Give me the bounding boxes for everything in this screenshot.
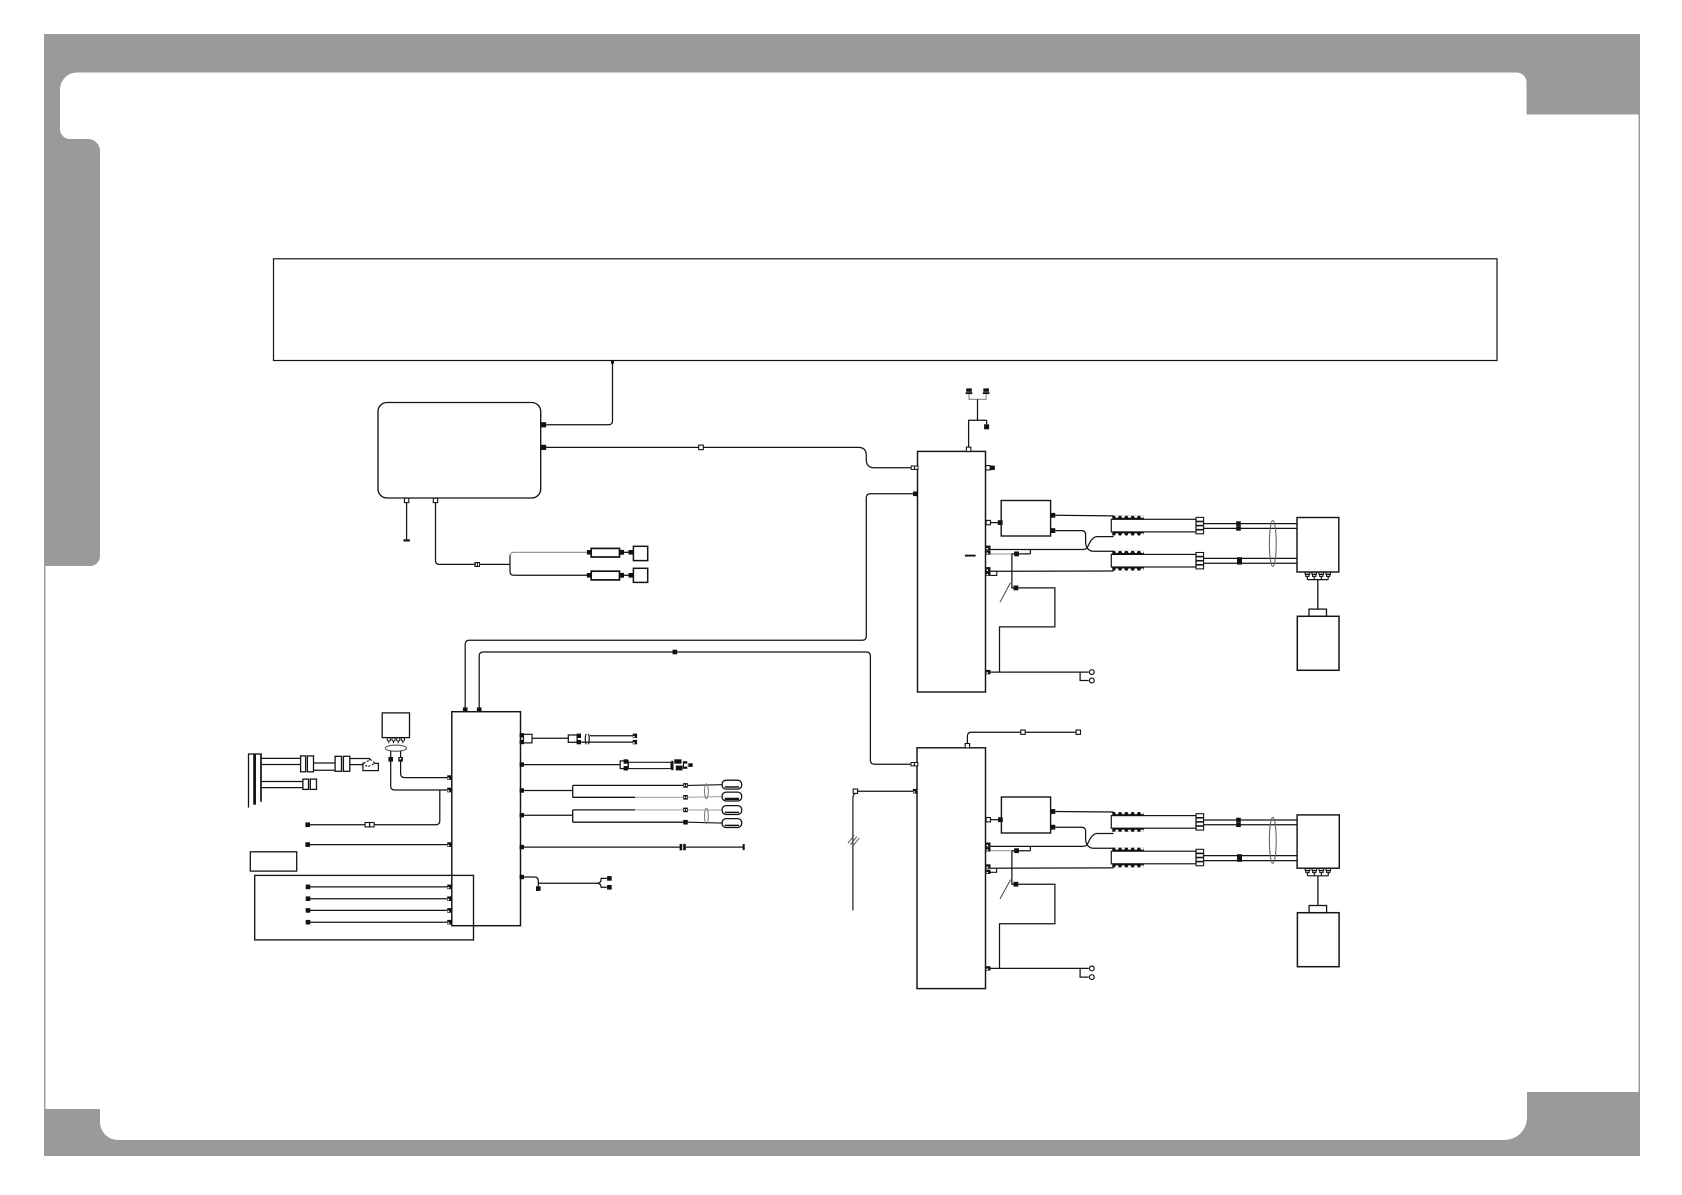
CRT 1: socket board [1297,518,1339,573]
pad at converter box 2 input [998,817,1003,822]
CRT 2: wire to CRT neck [1317,876,1319,906]
cable tie ellipse (lower) [1269,817,1276,863]
gray stub from P5b' [991,850,1012,852]
pin pad: control box bottom stub 1 [404,498,408,502]
inline connector R3 [335,756,341,771]
CRT 2: CRT neck [1309,906,1327,913]
link between P5a wire and P5b net [1029,550,1031,554]
degauss lead going down [853,793,856,910]
pin pads: upper board right pin group P5 [986,546,990,555]
CRT 1: 4 bottom terminals with bracket [1305,572,1330,580]
pin pad: control box bottom stub 2 [433,498,437,502]
CRT 2: socket board [1297,815,1339,868]
wire: control box to cable bundle [436,503,475,565]
ribbon row 4: wire from left board pin [520,813,524,817]
wire: lower board to yoke coil 4 bottom [990,867,1113,869]
pin pad: lower board left pin 2 [913,789,918,794]
pin pad at upper board (right pin 2) [986,520,990,524]
pad at harness wire 2 start [306,896,311,901]
dark tie segment P5b [1012,553,1031,555]
pin pad: control box right pin 1 [541,422,546,427]
wire: P5a to yoke coil 1 bottom (crossover hop) [991,537,1114,550]
inline fuse F2 [591,571,619,580]
label dash inside upper board [965,555,976,557]
degauss connector pins (4 circles) [387,738,405,744]
wire: bottom pin to jumper plug [991,671,1089,673]
wire: upper board to converter box 1 [991,522,999,524]
filter block row 1 [568,735,577,742]
loop stub at P6 [991,571,997,575]
connector B1 [633,546,647,560]
wire: control box to main board pin (net A) [546,447,913,467]
pin pad: left board harness 2 [447,896,452,901]
pad on F2 input [587,573,592,578]
inline connector R1 [301,756,306,772]
harness wire 2 inside large block [310,898,447,900]
yoke coil 2 (upper V) [1111,551,1203,571]
lower chassis board (tall rectangle) [917,748,986,989]
wire: converter 1 to yoke coil 1 top [1055,514,1113,517]
wire pair: coil 3 to CRT socket board 2 [1204,819,1297,821]
bus B: lower board to left board (lower horizontal) [479,652,913,764]
wire: lower board left pin 2 to degauss lead [858,790,913,792]
CRT 2: 4 bottom terminals with bracket [1305,868,1330,876]
splice squares on coil 1 pair [1236,521,1241,530]
pads on filter row 1 [577,734,581,745]
pad: converter box 2 output 1 [1051,809,1056,814]
ribbon row 3: stadium connector B [722,792,742,801]
pin pad: upper board bottom-right pin [986,670,990,674]
inline fuse F1 [591,548,619,557]
splice block on coil 2 pair [1237,557,1242,564]
degauss connector box [382,713,409,738]
antenna plug cluster [671,759,693,770]
ribbon row 3: cable bracket and conductors [573,785,684,797]
capacitor arcs row 1 [585,734,589,744]
degauss cable tie ellipse [385,745,406,751]
junction square on staircase [1014,586,1019,591]
inline connector bars row 5 [680,844,686,850]
cable bundle (racetrack loop) [510,552,591,556]
ribbon row 4: stadium connector B [722,819,742,828]
AC terminal 1 [966,388,973,394]
junction on title block bottom [611,361,614,364]
pin pad: upper board left pin 2 [913,492,918,497]
pin pad: left board (net L3) [447,842,452,847]
staircase net: P5b' to lower board bottom pin wire [1000,851,1055,969]
ribbon row 3: stadium connector A [722,780,742,789]
pin pad: upper board right stub [986,466,995,470]
CRT 1: CRT neck [1309,609,1327,616]
ribbon row 3: wire from left board pin [520,788,524,792]
bus A: upper board to left board (upper horizontal) [465,494,913,708]
jumper pin circle 2 (lower) [1089,975,1094,980]
splice pad on degauss wire 2 [398,757,403,762]
pin pad: upper board top [966,447,970,451]
wire pair row 1 to pads [581,736,633,742]
pin pads: left board right row 1 [520,733,524,744]
ribbon row 4: cable tie [705,808,709,823]
junction square on P5b' net [1014,848,1019,853]
wire: converter 1 to yoke coil 2 top (crossover descend) [1055,531,1113,552]
pad at net L3 left end [305,842,310,847]
yoke coil 1 (upper H) [1111,516,1203,536]
pin pad: upper board left pin 1 (double) [911,466,918,469]
pin pad: lower board bottom-right pin [986,966,990,970]
pin pad: lower board top [965,744,969,748]
title block (empty wide rectangle) [274,259,1498,361]
pad: converter box 1 output 2 [1051,528,1056,533]
jumper pin circle 2 [1089,678,1094,683]
harness wire 1 inside large block [310,886,447,888]
ribbon row 3: cable tie [705,784,709,799]
wire: bottom pin to jumper plug (lower) [991,967,1089,969]
double splice on net L2 [365,823,374,827]
pin pads: upper board right pin P6 (double) [986,567,990,576]
pad: converter box 2 output 2 [1051,825,1056,830]
junction marker on top service wire [1021,730,1025,734]
Y-wire end pads [607,876,612,890]
splice block on coil 4 pair [1237,854,1242,862]
pin pad: left board harness 4 [447,920,452,925]
wire: joined terminals down [977,399,979,420]
pin pad: left board top pin 1 [463,707,468,712]
ribbon row 3: mid pads [683,783,688,788]
pad at harness wire 3 start [306,908,311,913]
wire: pad row to left board pin (net L2) [308,790,440,825]
pin pad: left board right row 2 [520,762,524,766]
pad at harness wire 1 start [306,885,311,890]
splice square on degauss wire 1 [388,757,393,762]
wire: P6 to yoke coil 2 bottom [991,570,1114,572]
pad on F1 input [587,550,592,555]
converter box 2 [1001,797,1050,833]
pin pad: control box right pin 2 [541,445,546,450]
harness wire 4 inside large block [310,921,447,923]
Y-wire from left board bottom pin [520,875,524,879]
CRT 2: CRT [1297,913,1339,967]
wire pair: coil 2 to CRT socket board 1 [1204,557,1297,559]
wire: terminal drops join [969,394,986,399]
cable-continues hatch /// [848,835,859,846]
inline connector R5 [303,779,309,789]
jumper pin circle 1 [1089,670,1094,675]
connector block row 1 [524,734,533,743]
splice squares on coil 3 pair [1236,818,1241,827]
wire: tee to board top pin [969,420,987,447]
pad on degauss lead [853,789,857,793]
CRT 1: CRT [1297,616,1339,670]
ribbon row 3: leads to connectors [688,784,722,787]
wire: P5a' to yoke coil 3 bottom (crossover hop) [991,834,1114,847]
ferrite bead on cable [474,562,480,567]
yoke coil 4 (lower V) [1111,848,1203,868]
wire row 1 [532,737,568,739]
inline connector R4 [343,756,349,771]
junction square on P5b net [1014,552,1019,557]
converter box 1 [1001,501,1050,537]
control box (rounded rectangle) [378,403,541,499]
pad at Y-wire stub end [536,886,541,891]
pin pad: left board top pin 2 [477,707,482,712]
terminal panel (comb) [248,754,262,808]
pad at net L2 left end [305,822,310,827]
annotation slash (lower) [1000,880,1011,899]
pad on F1 output [619,550,624,555]
pad before connector B1 [629,550,634,555]
junction square on lower staircase [1014,882,1019,887]
cable pair 1 from terminal panel [261,758,301,764]
wire pair: coil 4 to CRT socket board 2 [1204,855,1297,857]
antenna barrel connector [620,761,628,769]
loop stub at coil-return pin [990,868,996,872]
degauss wire 1 to left board [391,751,448,790]
wire: lower board top pin to service stubs [967,732,1078,743]
jumper pin circle 1 (lower) [1089,966,1094,971]
Y-wire branch to double pads [538,878,607,883]
antenna cable body [628,762,671,768]
pin pad at lower board (right pin) [986,818,990,822]
upper chassis board (tall rectangle) [918,451,986,692]
ribbon row 4: leads to connectors [688,809,722,811]
wire: net L3 to left board [310,844,447,846]
pad on F2 output [619,573,624,578]
pin pad: lower board left pin 1 (double) [911,763,918,766]
wire pair: coil 1 to CRT socket board 1 [1204,523,1297,525]
pin pad: left board pin (degauss 1) [447,788,452,793]
wire: lower board to converter box 2 [991,819,1000,821]
cable pair 1 segment 2 [314,763,336,770]
pad before connector B2 [629,573,634,578]
end marker on top service wire [1076,730,1080,734]
small block (bottom-left) [250,852,296,871]
pin pad: left board harness 1 [447,885,452,890]
pin pads: lower board coil-return pins [986,864,990,874]
junction marker on net A wire [699,445,704,450]
link between P5a' wire and P5b' net [1029,846,1031,850]
end terminal bar row 5 [743,844,745,850]
inline connector R2 [307,756,313,772]
dark tie segment P5b lower [1012,850,1031,852]
yoke coil 3 (lower H) [1111,812,1203,832]
wire row 2 (antenna lead) [524,764,620,766]
junction on bus B [673,650,678,655]
AC terminal 2 [983,388,990,394]
cable tie ellipse (upper) [1269,521,1276,567]
CRT 1: wire to CRT neck [1317,580,1319,610]
pin pad: left board harness 3 [447,908,452,913]
wire: converter 2 to yoke coil 3 top [1055,811,1113,814]
plug at cable 1 end [350,759,379,771]
connector B2 [633,568,647,582]
annotation slash (upper) [1000,583,1011,603]
pad: converter box 1 output 1 [1051,513,1056,518]
harness wire 3 inside large block [310,909,447,911]
ribbon row 4: mid pads [683,808,688,813]
stub wire with end tick [406,503,408,540]
degauss wire 2 to left board [401,751,448,778]
jumper stub to pin 2 (lower) [1080,968,1089,977]
ribbon row 4: stadium connector A [722,806,742,815]
cable pair 2 from terminal panel [261,782,303,788]
row 5: long wire with inline connector [520,845,524,849]
large block (bottom-left) [255,875,474,940]
stub with pad (right branch) [986,420,988,424]
wire: ferrite to cable bundle [480,563,510,565]
wire: converter 2 to yoke coil 4 top (crossover descend) [1055,827,1113,848]
ribbon row 4: cable bracket and conductors [573,810,684,822]
pin pads: lower board right pin group P5' [986,843,990,852]
staircase net: P5b to board bottom pin wire [1000,554,1055,672]
left main board (tall rectangle) [452,712,521,926]
end pads row 1 [633,734,637,745]
pad at converter box 1 input [998,520,1003,525]
pin pad: left board pin (degauss 2) [447,775,452,780]
wire: title block to control box [546,361,612,425]
jumper stub to pin 2 [1080,672,1089,680]
gray stub from P5b [991,553,1012,555]
pad at harness wire 4 start [306,920,311,925]
inline connector R6 [310,779,316,789]
